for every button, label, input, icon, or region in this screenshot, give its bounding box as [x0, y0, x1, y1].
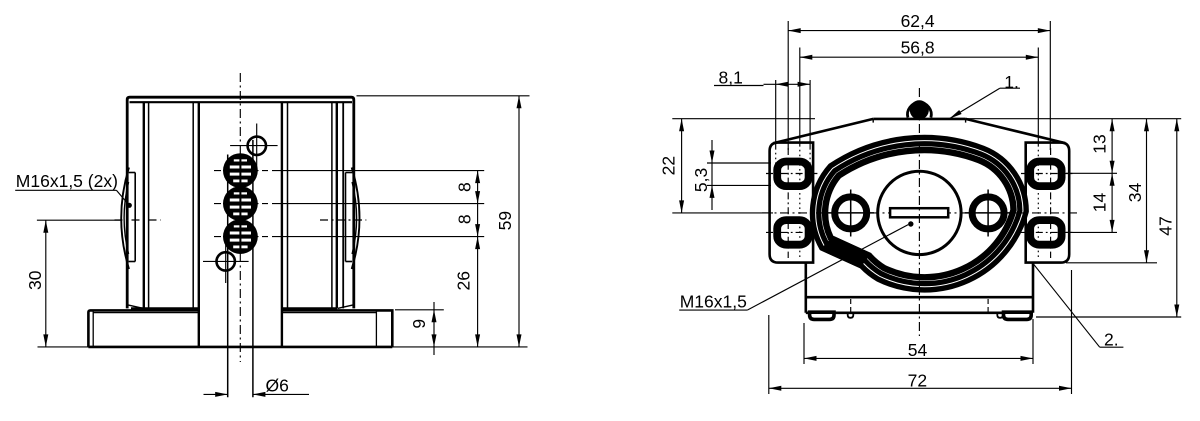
svg-text:2.: 2.	[1104, 329, 1119, 349]
svg-text:5,3: 5,3	[691, 168, 711, 192]
svg-text:8,1: 8,1	[719, 67, 743, 87]
svg-text:47: 47	[1155, 216, 1175, 235]
ear slot hole top-left	[777, 162, 808, 187]
left side port center dashes (left)	[115, 219, 161, 221]
threaded hole circle 1	[223, 153, 258, 188]
seal groove band inner	[825, 150, 1013, 277]
ear slot hole bottom-right	[1030, 220, 1061, 245]
left side port M16 boss (left)	[134, 173, 136, 262]
dome socket rim	[908, 103, 932, 118]
port circle left crosshair	[828, 212, 875, 214]
dimension 13	[1111, 119, 1113, 174]
left view body outline	[127, 97, 354, 308]
bracket ears	[770, 143, 814, 263]
svg-text:M16x1,5 (2x): M16x1,5 (2x)	[16, 171, 118, 191]
vertical centerline left view	[239, 73, 241, 362]
dimension 62,4	[787, 21, 789, 150]
dimension 30	[37, 219, 122, 221]
seal groove corner fill	[820, 236, 871, 268]
base nub left	[848, 313, 854, 318]
ear slot hole top-right	[1030, 162, 1061, 187]
left view base	[88, 310, 392, 347]
dimension O6	[204, 393, 228, 395]
dimension 14	[1066, 172, 1117, 174]
dimension 72	[768, 315, 770, 394]
dimension 8,1	[775, 80, 777, 148]
dome ball	[910, 100, 929, 119]
ear slot hole bottom-left	[777, 220, 808, 245]
dimension 9	[395, 309, 444, 311]
port circle left	[835, 197, 867, 229]
svg-text:54: 54	[908, 340, 928, 360]
extension dotted 56,8	[799, 145, 801, 258]
dimension 8 lower	[477, 204, 479, 237]
svg-text:M16x1,5: M16x1,5	[680, 291, 747, 311]
dimension 54	[803, 323, 805, 364]
ear hole centerlines vertical	[787, 148, 789, 258]
svg-text:9: 9	[409, 319, 429, 329]
vertical hole walls O6	[227, 155, 229, 398]
dimension 56,8	[799, 48, 801, 146]
center slot	[890, 208, 948, 217]
threaded hole circle 3	[223, 219, 258, 254]
ear hole centerlines horizontal	[766, 173, 818, 175]
hole row centerlines	[214, 170, 268, 172]
svg-text:72: 72	[908, 370, 927, 390]
left view inner columns	[143, 103, 145, 309]
left view base chamfer slants	[127, 305, 143, 309]
dimension 8 upper	[477, 171, 479, 204]
svg-text:34: 34	[1125, 183, 1145, 203]
left view bottom edge line	[38, 346, 528, 348]
svg-text:13: 13	[1089, 134, 1109, 153]
top small hole circle	[248, 137, 266, 155]
vertical centerline right view	[918, 88, 920, 336]
svg-text:30: 30	[25, 270, 45, 290]
left side port center dashes (right)	[320, 219, 366, 221]
bottom small hole circle	[217, 252, 235, 270]
base nub right	[997, 313, 1003, 318]
leader dot M16	[908, 221, 913, 226]
left view window bottom edges	[131, 307, 199, 309]
svg-text:Ø6: Ø6	[266, 376, 289, 396]
svg-text:14: 14	[1089, 193, 1109, 213]
svg-text:8: 8	[454, 182, 474, 192]
pilot circle	[878, 171, 961, 254]
dimension 47	[966, 118, 1182, 120]
svg-text:1.: 1.	[1004, 72, 1019, 92]
seal groove band middle	[819, 144, 1020, 284]
base port centerline dashes	[850, 299, 852, 312]
svg-text:8: 8	[454, 214, 474, 224]
horizontal centerline right view	[762, 212, 1078, 214]
dimension 34	[1066, 262, 1157, 264]
svg-text:62,4: 62,4	[901, 11, 935, 31]
svg-text:56,8: 56,8	[901, 38, 935, 58]
base foot right	[1004, 312, 1032, 319]
seal groove band outer	[813, 138, 1027, 290]
svg-text:59: 59	[495, 211, 515, 230]
port circle right	[972, 197, 1004, 229]
dimension 5,3	[707, 162, 771, 164]
bracket top outline	[873, 118, 965, 121]
base foot left	[810, 312, 834, 319]
dimension 59	[357, 95, 530, 97]
dimension 22	[672, 118, 815, 120]
svg-text:22: 22	[659, 156, 679, 175]
left side port M16 boss (right)	[345, 173, 347, 262]
svg-text:26: 26	[453, 271, 473, 290]
threaded hole circle 2	[223, 186, 258, 221]
bracket neck and base	[806, 263, 1033, 313]
dimension 26	[477, 237, 479, 347]
port circle right crosshair	[965, 212, 1012, 214]
